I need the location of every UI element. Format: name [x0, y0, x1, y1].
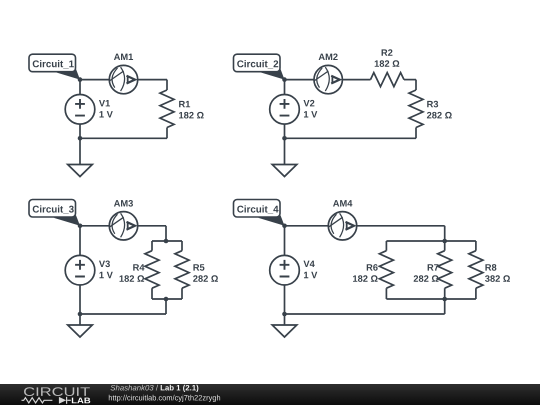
wire — [138, 79, 167, 81]
label 1 V value — [304, 111, 317, 117]
wire — [342, 79, 370, 81]
label 1 V value — [99, 111, 112, 117]
voltage source V2 — [270, 95, 300, 125]
wire — [80, 313, 166, 315]
wire — [151, 288, 153, 299]
label R4 — [133, 264, 144, 270]
wire — [385, 288, 387, 299]
wire — [284, 285, 286, 314]
label 382 Ohm value — [485, 275, 510, 282]
junction dot — [78, 136, 83, 141]
ground — [68, 325, 93, 337]
label V3 — [99, 261, 110, 268]
wire — [284, 80, 286, 95]
footer url text — [109, 395, 220, 402]
wire — [79, 124, 81, 138]
wire — [80, 79, 109, 81]
wire — [444, 226, 446, 241]
label 282 Ohm value — [193, 275, 218, 282]
resistor R7 282 Ohm — [438, 251, 452, 289]
label R3 — [427, 101, 438, 108]
label 282 Ohm value — [414, 275, 439, 282]
junction dot — [442, 239, 447, 244]
ammeter AM2 — [314, 65, 342, 93]
junction dot — [282, 312, 287, 317]
wire — [444, 241, 446, 251]
wire — [79, 226, 81, 256]
node flag Circuit_3 — [29, 200, 80, 226]
wire — [386, 240, 476, 242]
resistor R2 182 Ohm — [371, 73, 405, 87]
resistor R6 182 Ohm — [379, 251, 393, 289]
ammeter AM4 — [328, 212, 356, 240]
ground — [68, 165, 93, 177]
label R2 — [382, 49, 393, 55]
junction dot — [164, 239, 169, 244]
resistor R4 182 Ohm — [145, 251, 159, 289]
wire — [165, 299, 167, 314]
footer bar — [0, 384, 540, 405]
label V4 — [303, 261, 314, 267]
label AM4 — [333, 200, 352, 206]
label R1 — [179, 101, 190, 107]
wire — [80, 137, 167, 139]
wire — [444, 288, 446, 299]
label 282 Ohm value — [427, 112, 452, 119]
junction dot — [442, 297, 447, 302]
label 182 Ohm value — [179, 112, 204, 119]
wire — [284, 138, 286, 164]
label V2 — [303, 100, 314, 106]
ammeter AM3 — [109, 212, 137, 240]
wire — [152, 240, 182, 242]
wire — [285, 225, 329, 227]
wire — [404, 79, 416, 81]
voltage source V4 — [270, 255, 300, 285]
wire — [152, 298, 182, 300]
ammeter AM1 — [109, 65, 137, 93]
label R7 — [428, 264, 439, 270]
junction dot — [78, 312, 83, 317]
label 182 Ohm value — [353, 275, 378, 282]
wire — [79, 285, 81, 314]
label R8 — [485, 264, 496, 271]
junction dot — [282, 77, 287, 82]
node flag Circuit_1 — [29, 54, 80, 79]
ground — [272, 325, 297, 337]
wire — [138, 225, 166, 227]
wire — [151, 241, 153, 251]
label AM2 — [319, 54, 338, 60]
label 1 V value — [304, 272, 317, 278]
ground — [272, 165, 297, 177]
junction dot — [164, 297, 169, 302]
wire — [385, 241, 387, 251]
wire — [79, 314, 81, 325]
junction dot — [282, 224, 287, 229]
resistor R1 182 Ohm — [160, 90, 174, 128]
node flag Circuit_4 — [234, 200, 285, 226]
wire — [79, 80, 81, 95]
resistor R5 282 Ohm — [175, 251, 189, 289]
label 182 Ohm value — [120, 275, 145, 282]
wire — [80, 225, 109, 227]
CircuitLab logo — [22, 387, 91, 404]
node flag Circuit_2 — [234, 54, 285, 79]
label V1 — [99, 100, 110, 106]
wire — [415, 80, 417, 90]
wire — [285, 79, 315, 81]
label AM3 — [114, 200, 133, 207]
wire — [475, 241, 477, 251]
wire — [181, 288, 183, 299]
wire — [165, 226, 167, 241]
wire — [284, 226, 286, 256]
voltage source V1 — [65, 95, 95, 125]
wire — [181, 241, 183, 251]
wire — [444, 299, 446, 314]
wire — [166, 80, 168, 90]
resistor R3 282 Ohm — [409, 90, 423, 128]
wire — [166, 128, 168, 139]
label 182 Ohm value — [375, 60, 400, 67]
junction dot — [78, 77, 83, 82]
wire — [285, 313, 445, 315]
wire — [386, 298, 476, 300]
wire — [415, 128, 417, 139]
junction dot — [282, 136, 287, 141]
label R6 — [367, 264, 378, 271]
wire — [284, 314, 286, 325]
wire — [285, 137, 417, 139]
wire — [284, 124, 286, 138]
junction dot — [78, 224, 83, 229]
wire — [357, 225, 445, 227]
voltage source V3 — [65, 255, 95, 285]
wire — [79, 138, 81, 164]
wire — [475, 288, 477, 299]
resistor R8 382 Ohm — [469, 251, 483, 289]
footer title text: Shashank03 / Lab 1 (2.1) — [111, 385, 154, 391]
label R5 — [193, 264, 204, 270]
label AM1 — [114, 54, 133, 60]
label 1 V value — [99, 272, 112, 278]
